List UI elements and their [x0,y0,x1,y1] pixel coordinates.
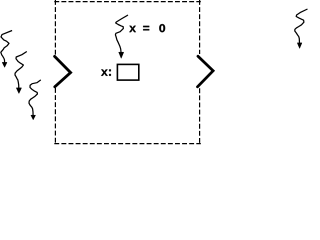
squiggly arrow S2 (outer left, middle) [15,52,27,94]
dashed box bottom edge [54,143,201,145]
dashed box left edge lower segment [54,88,56,143]
squiggly arrow S1 (outer left, top) [1,31,12,68]
squiggly arrow S3 (outer left, bottom) [29,80,41,120]
dashed box top edge [54,1,201,3]
label "x:" (Liberation Mono Bold 12px outlines) [101,69,111,75]
label "x = 0" (Liberation Mono Bold 12px outlines, plain zero) [129,24,165,32]
variable cell rectangle [117,64,138,80]
dashed box right edge lower segment [199,88,201,143]
squiggly arrow S5 (outer right) [295,9,308,48]
left chevron (entry arrow) [55,56,71,86]
squiggly arrow S4 (inside box, points at variable cell) [115,15,128,58]
right chevron (exit arrow) [198,56,214,87]
dashed box right edge upper segment [199,0,201,54]
dashed box left edge upper segment [54,0,56,55]
